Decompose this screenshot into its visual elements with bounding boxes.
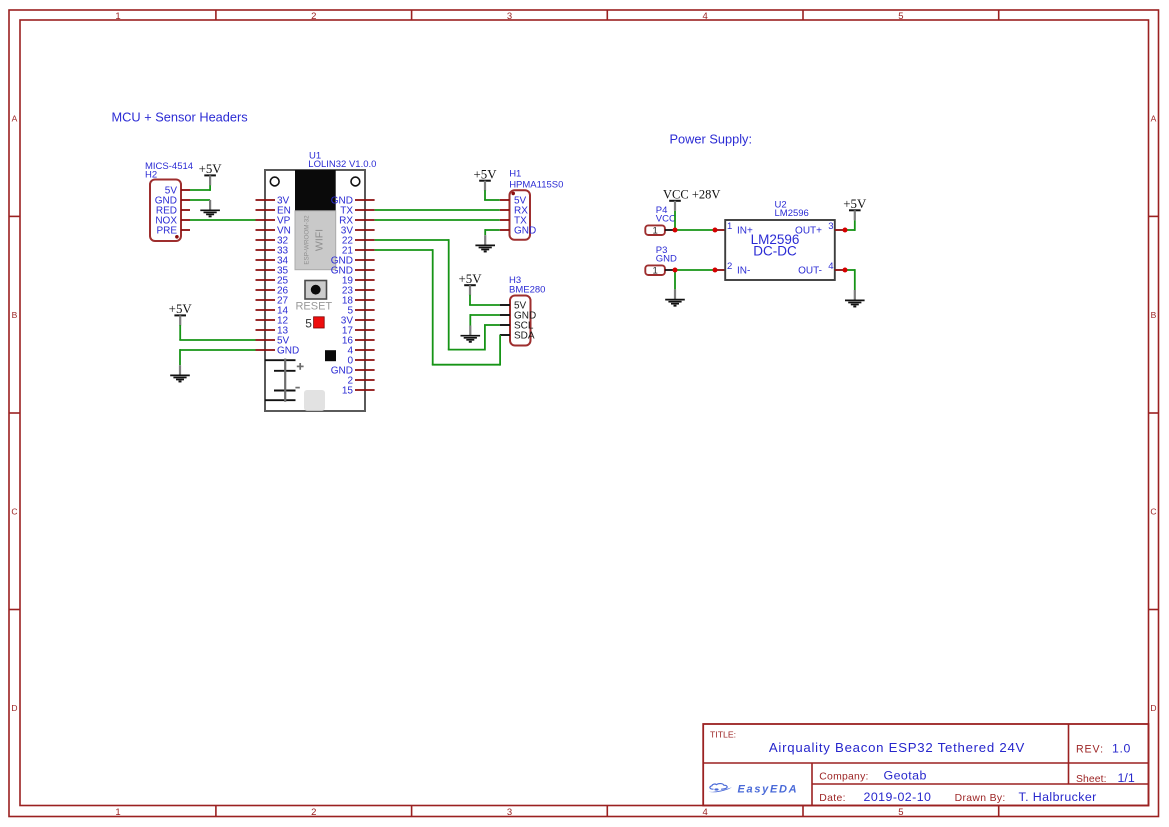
svg-text:1.0: 1.0 (1112, 741, 1131, 755)
connector H1 pin GND (500, 226, 537, 237)
U1 left pin 5V (256, 336, 290, 347)
U1 left pin 3V (256, 196, 290, 207)
U1 right pin 18 (342, 296, 375, 307)
title block row divider 1 (703, 762, 1148, 764)
svg-text:VCC: VCC (656, 214, 676, 225)
junction at P4 (0, 0, 1, 1)
U1 right pin GND (331, 366, 375, 377)
svg-text:5: 5 (898, 807, 903, 818)
U1 right pin 21 (342, 246, 375, 257)
svg-text:1/1: 1/1 (1118, 771, 1135, 785)
svg-text:RESET: RESET (295, 300, 332, 312)
U1 left pin VN (256, 226, 291, 237)
wire H2 GND to ground (190, 199, 210, 201)
module U1 mounting hole right (351, 177, 360, 186)
U1 right pin 19 (342, 276, 375, 287)
wire P4 to U2 IN+ (675, 229, 715, 231)
title block EasyEDA logo (709, 783, 799, 795)
svg-text:B: B (12, 310, 18, 320)
svg-text:Sheet:: Sheet: (1076, 774, 1107, 785)
svg-text:D: D (11, 703, 17, 713)
junction at U2 IN- (0, 0, 1, 1)
U1 right pin 15 (342, 386, 375, 397)
connector H3 pin GND (500, 311, 537, 322)
svg-text:+5V: +5V (199, 162, 223, 176)
power +5V symbol left of U1 (169, 302, 193, 325)
U1 right pin 17 (342, 326, 375, 337)
U1 right pin GND (331, 196, 375, 207)
connector H1 body (510, 190, 531, 240)
wire H1 GND to ground (485, 229, 500, 235)
ground symbol below H3 (461, 326, 481, 342)
svg-text:REV:: REV: (1076, 743, 1104, 755)
wire U1 21 to H3 SDA (375, 249, 501, 366)
pin stub U2 IN+ (715, 229, 725, 231)
U1 left pin 25 (256, 276, 289, 287)
svg-text:WIFI: WIFI (314, 229, 326, 251)
svg-text:15: 15 (342, 386, 354, 397)
ground symbol below P3 (665, 289, 685, 305)
junction at U2 OUT+ (0, 0, 1, 1)
svg-text:5: 5 (305, 317, 312, 331)
power +5V symbol near H2 (199, 162, 223, 185)
svg-text:SDA: SDA (514, 331, 535, 342)
U1 right pin 3V (341, 316, 375, 327)
svg-text:Drawn By:: Drawn By: (955, 793, 1006, 804)
svg-text:5: 5 (898, 11, 903, 22)
U1 left pin 32 (256, 236, 289, 247)
junction at P3 (0, 0, 1, 1)
svg-text:A: A (12, 114, 18, 124)
svg-text:2: 2 (727, 261, 732, 272)
connector H3 pin SDA (500, 331, 535, 342)
svg-text:Airquality Beacon ESP32 Tether: Airquality Beacon ESP32 Tethered 24V (769, 740, 1025, 755)
svg-text:ESP-WROOM-32: ESP-WROOM-32 (304, 215, 311, 265)
pin stub U2 IN- (715, 269, 725, 271)
svg-text:GND: GND (656, 254, 677, 265)
module U1 ESP-WROOM-32 shield (295, 211, 336, 270)
connector P3 pin stub (665, 269, 675, 271)
svg-text:1: 1 (727, 221, 732, 232)
dc-dc U2 body (725, 220, 835, 280)
connector H1 pin TX (500, 216, 527, 227)
connector P3 body (645, 265, 665, 276)
svg-text:LM2596: LM2596 (775, 208, 809, 219)
module U1 black chip square (325, 350, 336, 361)
svg-text:1: 1 (652, 226, 657, 237)
svg-text:VCC +28V: VCC +28V (663, 187, 720, 201)
module U1 reset button (305, 281, 327, 300)
svg-text:3: 3 (828, 221, 833, 232)
wire H2 5V to +5V (190, 185, 210, 191)
wire +5V to H1 5V (484, 190, 500, 200)
power +5V symbol above H3 (458, 272, 482, 295)
svg-text:+5V: +5V (169, 302, 193, 316)
svg-text:Company:: Company: (819, 771, 868, 782)
frame column ticks top (216, 10, 999, 20)
junction at U2 IN+ (0, 0, 1, 1)
U1 left pin 12 (256, 316, 289, 327)
wire U1 RX to H1 TX (375, 219, 500, 221)
svg-text:LOLIN32 V1.0.0: LOLIN32 V1.0.0 (308, 159, 376, 170)
svg-text:1: 1 (115, 11, 120, 22)
power +5V symbol above H1 (473, 168, 497, 191)
svg-text:4: 4 (828, 261, 833, 272)
wire P3 to ground (674, 270, 676, 289)
U1 left pin 33 (256, 246, 289, 257)
U1 right pin 0 (347, 356, 374, 367)
U1 right pin 23 (342, 286, 375, 297)
wire OUT+ to +5V (845, 220, 855, 231)
U1 left pin 27 (256, 296, 289, 307)
module U1 battery connector (265, 359, 304, 402)
connector H1 pin 5V (500, 196, 527, 207)
connector H2 pin GND (155, 196, 190, 207)
connector H2 pin RED (156, 206, 190, 217)
svg-text:4: 4 (703, 807, 708, 818)
wire P3 to U2 IN- (675, 269, 715, 271)
U1 right pin 16 (342, 336, 375, 347)
connector H3 pin 5V (500, 301, 527, 312)
svg-text:GND: GND (277, 346, 299, 357)
svg-text:H1: H1 (509, 169, 521, 180)
U1 left pin 26 (256, 286, 289, 297)
svg-text:C: C (1150, 507, 1156, 517)
svg-text:OUT-: OUT- (798, 266, 822, 277)
module U1 body (265, 170, 365, 411)
U1 right pin 22 (342, 236, 375, 247)
ground symbol left of U1 (170, 365, 190, 381)
U1 right pin 5 (347, 306, 374, 317)
wire U1 GND to ground (180, 349, 256, 365)
connector H1 pin RX (500, 206, 529, 217)
junction at U2 OUT- (0, 0, 1, 1)
svg-text:4: 4 (703, 11, 708, 22)
power VCC +28V symbol (663, 187, 720, 211)
U1 right pin 2 (347, 376, 374, 387)
svg-text:2: 2 (311, 11, 316, 22)
ground symbol below H1 (475, 235, 495, 251)
U1 right pin 4 (347, 346, 374, 357)
U1 left pin GND (256, 346, 300, 357)
svg-text:IN-: IN- (737, 266, 750, 277)
svg-text:1: 1 (115, 807, 120, 818)
wire H2 NOX to U1 VP (190, 219, 256, 221)
wire H3 GND to ground (470, 314, 499, 325)
svg-text:MCU + Sensor Headers: MCU + Sensor Headers (112, 110, 248, 125)
svg-text:A: A (1151, 114, 1157, 124)
svg-text:B: B (1151, 310, 1157, 320)
connector H2 pin PRE (156, 226, 190, 237)
frame row letters left (11, 114, 17, 714)
module U1 usb connector (304, 390, 325, 411)
svg-text:+5V: +5V (458, 272, 482, 286)
pin stub U2 OUT- (835, 269, 845, 271)
svg-text:BME280: BME280 (509, 285, 545, 296)
connector H2 pin NOX (155, 216, 190, 227)
connector H2 pin 5V (165, 186, 190, 197)
U1 right pin TX (340, 206, 374, 217)
wire OUT- to ground (845, 269, 855, 290)
svg-text:PRE: PRE (156, 226, 177, 237)
wire VCC stem to P4 junction (674, 211, 676, 230)
ground symbol near H2 (200, 200, 220, 216)
ground symbol below OUT- (845, 290, 865, 307)
title block row divider 2 (812, 783, 1149, 785)
U1 right pin 3V (341, 226, 375, 237)
svg-text:3: 3 (507, 807, 512, 818)
title block outer border (703, 724, 1148, 806)
svg-text:+5V: +5V (843, 197, 867, 211)
svg-text:C: C (11, 507, 17, 517)
connector P4 body (645, 225, 665, 236)
svg-text:Power Supply:: Power Supply: (670, 132, 753, 147)
svg-text:EasyEDA: EasyEDA (738, 783, 799, 795)
connector H2 body (150, 180, 181, 242)
svg-text:+5V: +5V (473, 168, 497, 182)
frame row ticks right (1149, 216, 1159, 609)
svg-text:T. Halbrucker: T. Halbrucker (1019, 790, 1097, 804)
svg-text:TITLE:: TITLE: (710, 730, 736, 740)
svg-text:DC-DC: DC-DC (753, 244, 797, 259)
frame column numbers bottom (115, 807, 903, 818)
svg-text:Geotab: Geotab (884, 768, 927, 782)
module U1 antenna block (295, 170, 336, 211)
title block rev cell divider (1068, 724, 1070, 784)
svg-text:OUT+: OUT+ (795, 226, 822, 237)
pin stub U2 OUT+ (835, 229, 845, 231)
svg-text:2: 2 (311, 807, 316, 818)
U1 right pin RX (339, 216, 375, 227)
U1 left pin 14 (256, 306, 289, 317)
connector P4 pin stub (665, 229, 675, 231)
power +5V symbol right of U2 (843, 197, 867, 220)
svg-text:GND: GND (514, 226, 536, 237)
svg-text:1: 1 (652, 266, 657, 277)
wire U1 22 to H3 SCL (375, 239, 500, 350)
frame column ticks bottom (216, 806, 999, 817)
frame row ticks left (9, 216, 20, 609)
svg-text:Date:: Date: (819, 793, 846, 804)
module U1 mounting hole left (270, 177, 279, 186)
U1 right pin GND (331, 266, 375, 277)
connector H3 pin SCL (500, 321, 534, 332)
svg-text:2019-02-10: 2019-02-10 (864, 790, 932, 804)
U1 left pin VP (256, 216, 291, 227)
svg-text:D: D (1150, 703, 1156, 713)
U1 left pin EN (256, 206, 291, 217)
U1 left pin 35 (256, 266, 289, 277)
module U1 red led square (314, 317, 325, 328)
frame column numbers top (115, 11, 903, 22)
U1 right pin GND (331, 256, 375, 267)
junction dots overlay (673, 228, 848, 273)
U1 left pin 13 (256, 326, 289, 337)
connector H1 pin-1 dot (511, 192, 515, 196)
wire +5V to H3 5V (469, 295, 500, 305)
svg-text:HPMA115S0: HPMA115S0 (509, 180, 563, 191)
svg-text:IN+: IN+ (737, 226, 753, 237)
connector H2 pin-1 dot (175, 235, 179, 239)
title block logo cell divider (811, 763, 813, 806)
U1 left pin 34 (256, 256, 289, 267)
frame row letters right (1150, 114, 1156, 714)
wire U1 TX to H1 RX (375, 209, 500, 211)
svg-text:3: 3 (507, 11, 512, 22)
connector H3 body (510, 296, 531, 346)
wire +5V to U1 5V (179, 325, 255, 340)
